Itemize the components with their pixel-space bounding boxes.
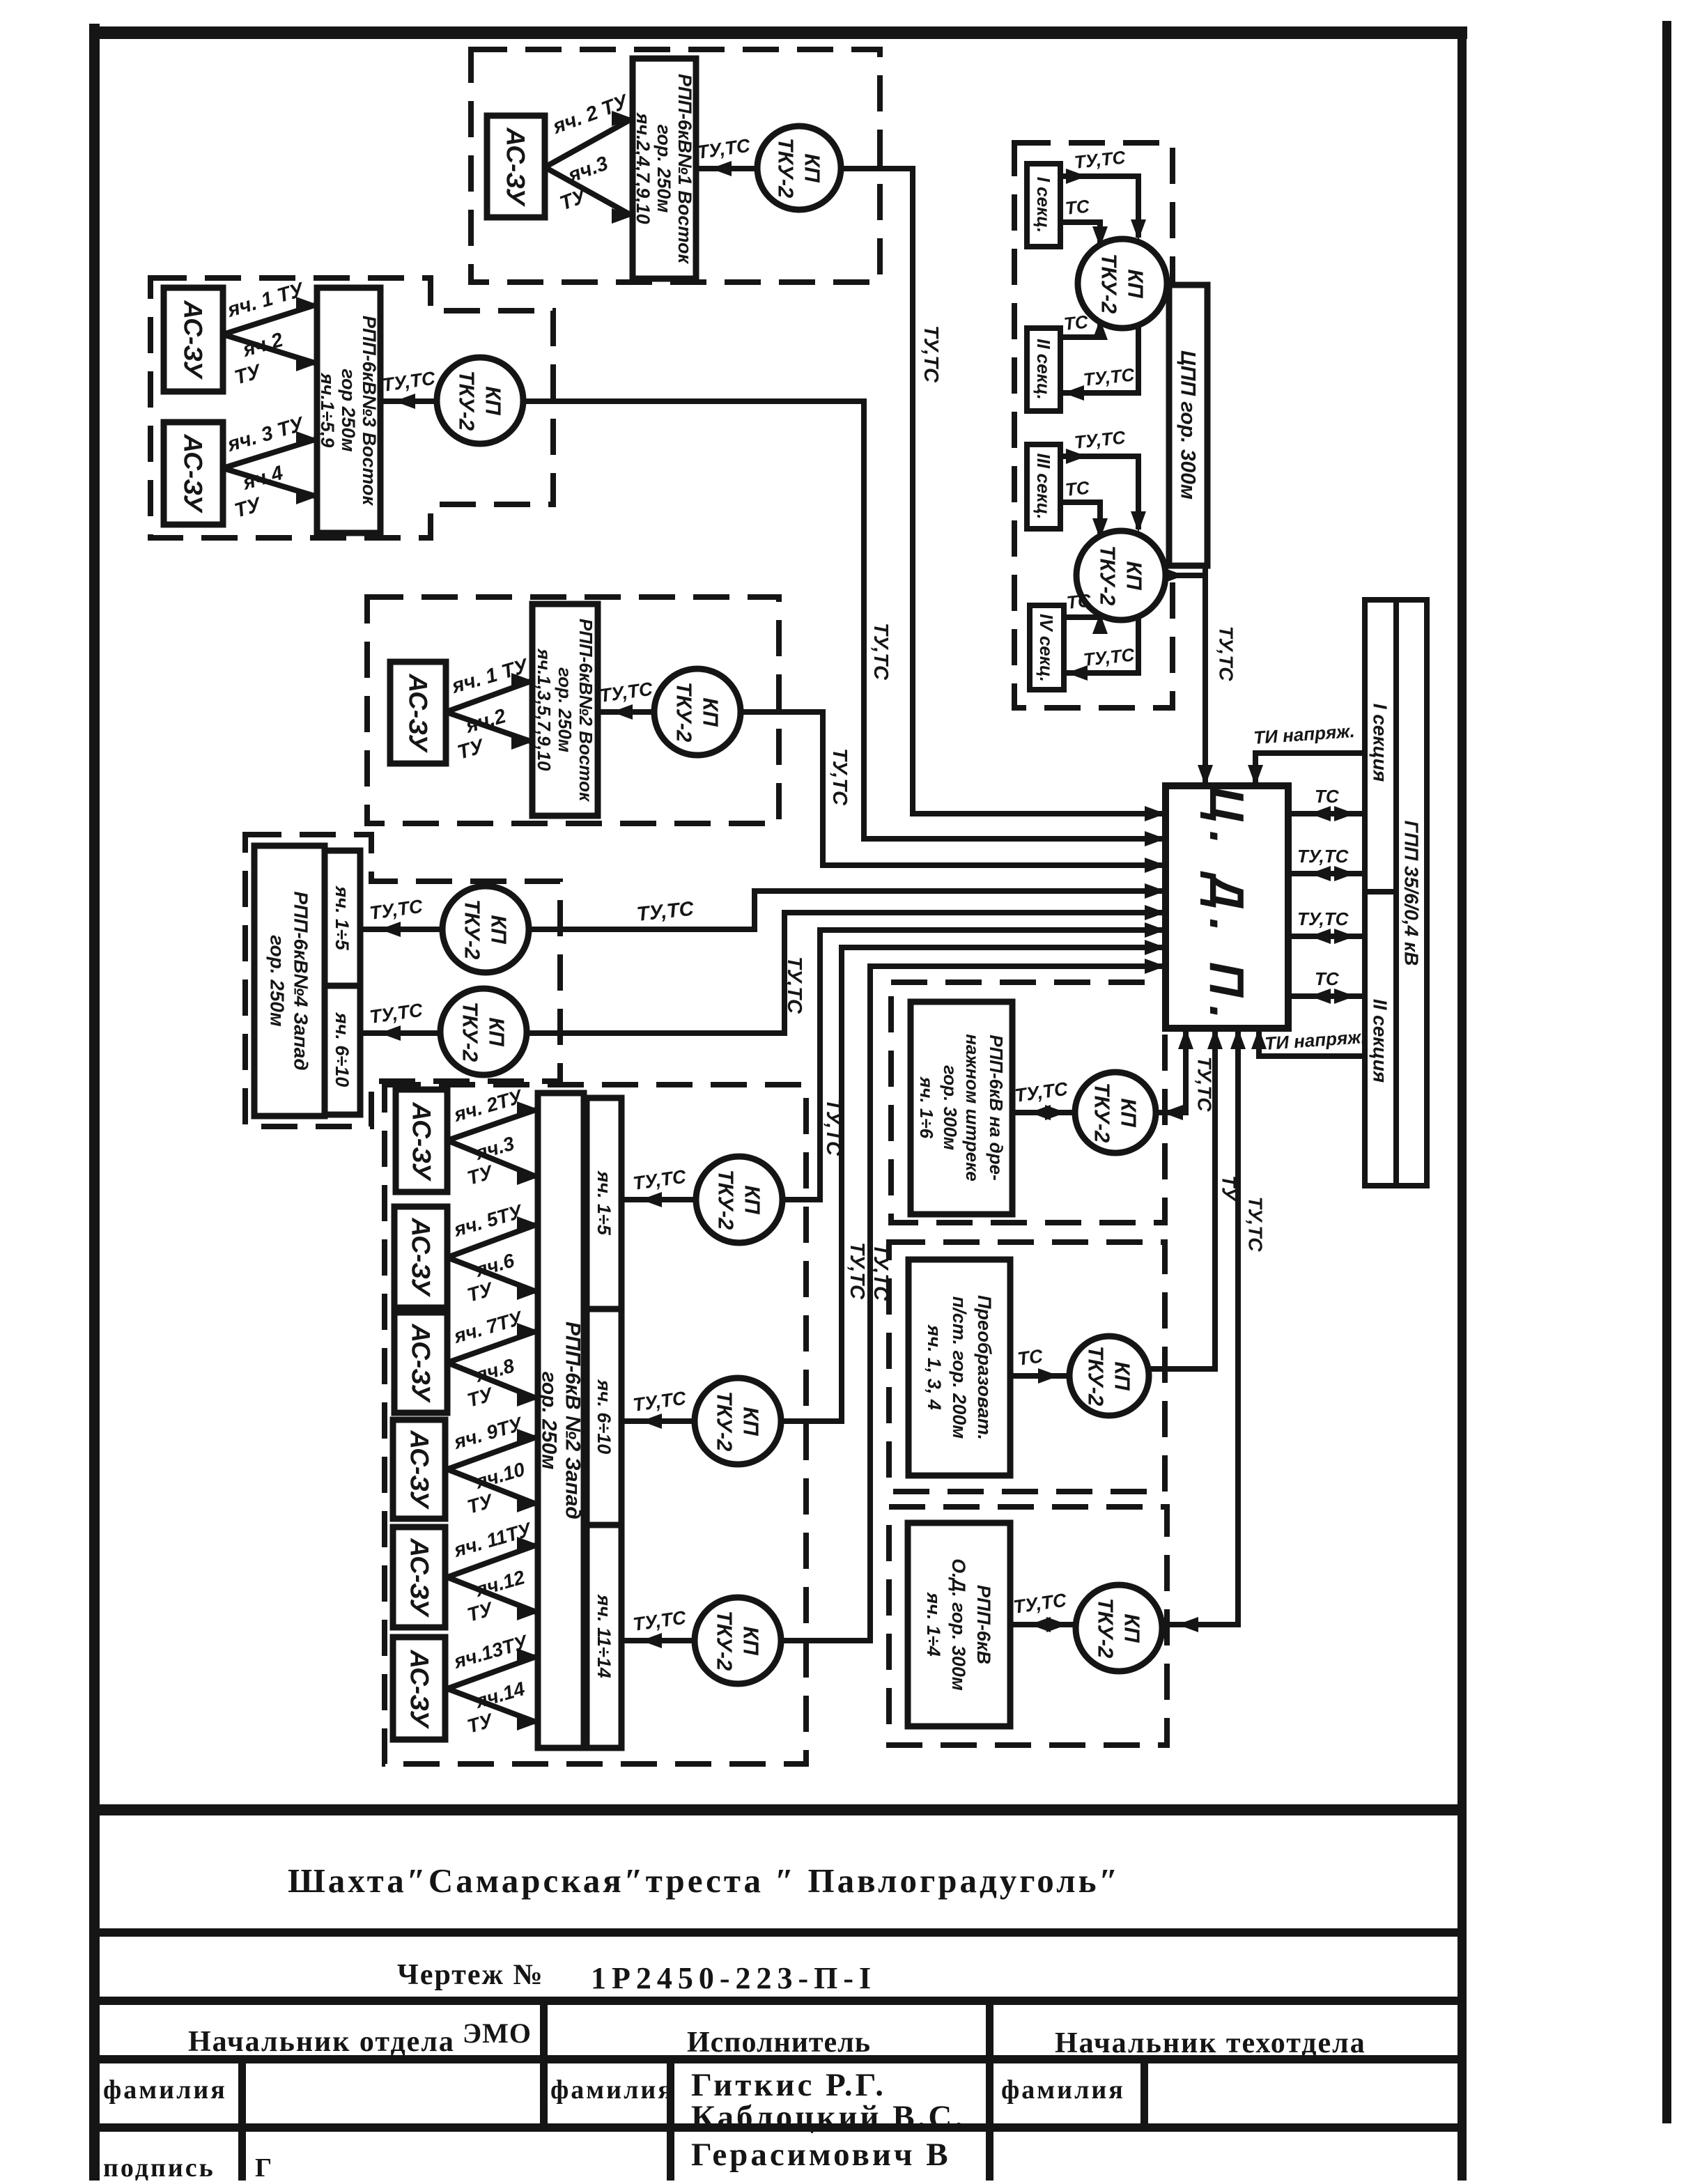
svg-text:АС-ЗУ: АС-ЗУ (405, 1538, 434, 1618)
svg-text:Исполнитель: Исполнитель (687, 2027, 871, 2059)
controller КП ТКУ-2 (ЦПП lower) (1076, 531, 1166, 620)
wire ТУ,ТС stub 2 (1288, 871, 1365, 876)
svg-text:АС-ЗУ: АС-ЗУ (408, 1101, 436, 1182)
wire ТИ напряж. lower (1259, 1028, 1365, 1056)
box Преобразоват. п/ст. (908, 1260, 1010, 1476)
cell яч.11÷14 (G5) (587, 1525, 621, 1748)
divider фамилия 2 (667, 2059, 674, 2181)
cell яч.6÷10 (G5) (587, 1309, 621, 1525)
sheet edge line right (1662, 21, 1671, 2123)
svg-text:Каблоцкий В.С.: Каблоцкий В.С. (691, 2099, 966, 2135)
wire ТУ,ТС I секц to КП upper (1060, 176, 1138, 238)
dashed group boundary Преобразоват. п/ст. (889, 1242, 1165, 1492)
svg-text:Герасимович В: Герасимович В (691, 2137, 951, 2173)
svg-text:Ц. Д. П.: Ц. Д. П. (1200, 787, 1254, 1027)
controller КП ТКУ-2 (G4 upper) (442, 886, 529, 973)
wire КП G7 to ЦДП bottom (1149, 1028, 1215, 1369)
title block rule 4 (100, 2055, 1457, 2063)
controller КП ТКУ-2 (G4 lower) (440, 989, 527, 1075)
svg-text:фамилия: фамилия (103, 2075, 227, 2105)
controller КП ТКУ-2 (G6) (1075, 1072, 1156, 1153)
svg-text:ТС: ТС (1315, 786, 1340, 807)
box АС-ЗУ (G5 #3) (394, 1312, 447, 1413)
svg-text:АС-ЗУ: АС-ЗУ (502, 127, 530, 207)
dashed group boundary РПП-6кВ №4 Запад (245, 835, 560, 1126)
wire ЦПП bus to ЦДП (1202, 566, 1208, 786)
bus РПП-6кВ №2 Запад (538, 1093, 584, 1748)
wire КП G4 lower to ЦДП line 5 (527, 913, 1166, 1033)
wire ТС IV секц to КП lower (1064, 616, 1100, 617)
wire ТИ напряж. upper (1255, 753, 1365, 786)
bus ГПП II секция (1365, 892, 1396, 1186)
cell яч.1÷5 (G4) (325, 851, 360, 986)
wire яч.1 ТУ (G3) (446, 681, 532, 712)
svg-text:фамилия: фамилия (1001, 2075, 1125, 2105)
wire ТУ,ТС III секц to КП lower (1060, 456, 1138, 529)
svg-text:ТУ,ТС: ТУ,ТС (869, 623, 892, 681)
svg-text:ТУ,ТС: ТУ,ТС (828, 748, 851, 806)
wire КП G8 to ЦДП bottom (1162, 1028, 1238, 1625)
svg-text:ТС: ТС (1065, 589, 1092, 613)
svg-text:ТС: ТС (1016, 1345, 1044, 1370)
controller КП ТКУ-2 (G8) (1076, 1585, 1162, 1671)
svg-text:IV секц.: IV секц. (1036, 614, 1057, 682)
wire КП G4 upper to ЦДП line 4 (529, 891, 1166, 929)
controller КП ТКУ-2 (ЦПП upper) (1078, 239, 1167, 328)
wire яч.10 ТУ (G5 #4) (447, 1469, 538, 1505)
wire ТУ,ТС cell2 to КП (G4) (360, 1030, 440, 1036)
svg-text:подпись: подпись (103, 2153, 215, 2181)
svg-text:яч. 1÷5: яч. 1÷5 (332, 885, 353, 950)
wire ТУ,ТС КП lower to IV секц (1064, 616, 1138, 673)
svg-text:яч. 1÷5: яч. 1÷5 (594, 1170, 614, 1235)
controller КП ТКУ-2 (G2) (437, 357, 523, 444)
wire ТУ,ТС cell to КП (G5 #1) (621, 1197, 696, 1202)
svg-text:яч. 6÷10: яч. 6÷10 (332, 1012, 353, 1087)
wire КП G5 #1 to ЦДП line 6 (782, 930, 1166, 1200)
box АС-ЗУ (G3) (390, 662, 446, 764)
svg-text:ТС: ТС (1064, 477, 1091, 500)
cell яч.1÷5 (G5) (587, 1098, 621, 1309)
wire ТУ,ТС cell1 to КП (G4) (360, 927, 442, 932)
svg-text:Начальник техотдела: Начальник техотдела (1055, 2027, 1366, 2059)
controller КП ТКУ-2 (G1) (757, 126, 841, 210)
svg-text:1Р2450-223-П-I: 1Р2450-223-П-I (591, 1961, 876, 1995)
wire КП upper to ЦПП bus (1167, 281, 1170, 286)
sheet frame right border (1457, 31, 1467, 2181)
sheet frame top border (89, 26, 1467, 39)
bus РПП-6кВ №3 Восток (317, 288, 380, 533)
dashed group boundary ЦПП (1014, 143, 1173, 708)
wire яч. 11ТУ (G5 #5) (447, 1544, 538, 1577)
dashed group boundary РПП-6кВ на дренажном штреке (891, 982, 1165, 1223)
title block rule 2 (100, 1928, 1457, 1937)
wire яч.14 ТУ (G5 #6) (447, 1689, 538, 1723)
wire яч.6 ТУ (G5 #2) (447, 1257, 538, 1292)
dashed group boundary РПП-6кВ №1 Восток (471, 49, 880, 282)
dashed group boundary РПП-6кВ №3 Восток (150, 278, 553, 538)
wire КП G2 to ЦДП line 2 (523, 401, 1166, 839)
svg-text:АС-ЗУ: АС-ЗУ (405, 1430, 434, 1510)
divider фамилия 3 (1140, 2059, 1148, 2132)
wire КП G3 to ЦДП line 3 (741, 712, 1166, 865)
svg-text:Чертеж №: Чертеж № (397, 1959, 544, 1991)
title block top rule (100, 1804, 1457, 1815)
wire ТС stub 1 (1288, 811, 1365, 816)
svg-text:ТУ,ТС: ТУ,ТС (783, 957, 805, 1014)
wire ТУ,ТС cell to КП (G5 #3) (621, 1638, 695, 1643)
bus ГПП 35/6/0,4 кВ (1396, 600, 1427, 1186)
divider column 2 (986, 2001, 993, 2181)
svg-text:III секц.: III секц. (1033, 453, 1054, 519)
svg-text:II секц.: II секц. (1033, 339, 1054, 400)
box АС-ЗУ (G5 #5) (393, 1527, 445, 1627)
box АС-ЗУ (G5 #4) (393, 1420, 445, 1519)
svg-text:ТУ,ТС: ТУ,ТС (920, 325, 942, 383)
svg-text:яч. 11÷14: яч. 11÷14 (594, 1593, 614, 1678)
svg-text:ТС: ТС (1315, 968, 1340, 989)
bus ЦПП гор.300м (1169, 285, 1207, 566)
svg-text:II секция: II секция (1370, 999, 1391, 1083)
controller КП ТКУ-2 (G3) (654, 669, 741, 755)
wire яч.8 ТУ (G5 #3) (447, 1363, 538, 1399)
svg-text:ЦПП гор. 300м: ЦПП гор. 300м (1177, 350, 1200, 499)
title block rule 3 (100, 1997, 1457, 2005)
svg-text:яч. 6÷10: яч. 6÷10 (594, 1379, 614, 1455)
svg-text:ТУ,ТС: ТУ,ТС (1297, 908, 1349, 929)
svg-text:ТС: ТС (1064, 195, 1091, 219)
svg-text:ТУ,ТС: ТУ,ТС (1297, 846, 1349, 867)
svg-text:АС-ЗУ: АС-ЗУ (404, 673, 433, 753)
wire яч.3 ТУ (G2) (223, 439, 317, 468)
controller КП ТКУ-2 (G7) (1069, 1336, 1149, 1416)
svg-text:Шахта″Самарская″треста ″ Павло: Шахта″Самарская″треста ″ Павлоградуголь″ (288, 1861, 1121, 1900)
block Ц.Д.П. (1166, 786, 1288, 1028)
wire ТС stub 4 (1288, 993, 1365, 999)
svg-text:АС-ЗУ: АС-ЗУ (179, 433, 208, 513)
svg-text:Начальник отдела: Начальник отдела (188, 2026, 455, 2058)
svg-text:ТУ,ТС: ТУ,ТС (1194, 1056, 1216, 1112)
wire КП G1 to ЦДП line 1 (841, 169, 1166, 814)
controller КП ТКУ-2 (G5 #1) (696, 1156, 782, 1243)
wire КП G6 to ЦДП bottom (1156, 1028, 1186, 1113)
box АС-ЗУ (G2 upper) (164, 288, 223, 392)
wire яч.1 ТУ (G2) (223, 304, 317, 334)
wire яч. 7ТУ (G5 #3) (447, 1331, 538, 1363)
svg-text:I секц.: I секц. (1033, 177, 1054, 233)
dashed group boundary РПП-6кВ №2 Восток (367, 597, 779, 823)
wire ТС II секц to КП upper (1060, 322, 1100, 337)
box АС-ЗУ (G2 lower) (164, 422, 223, 525)
svg-text:Гиткис Р.Г.: Гиткис Р.Г. (691, 2067, 886, 2103)
cell II секц. (ЦПП) (1027, 328, 1060, 411)
wire КП lower to ЦПП riser (1166, 573, 1205, 578)
box АС-ЗУ (G5 #6) (393, 1637, 445, 1740)
wire яч.12 ТУ (G5 #5) (447, 1577, 538, 1613)
bus РПП-6кВ №1 Восток (633, 59, 696, 279)
wire ТС III секц to КП lower (1060, 502, 1100, 537)
wire ТУ,ТС bus to КП (G2) (380, 398, 437, 404)
wire ТС I секц to КП upper (1060, 222, 1100, 245)
title block rule 5 (100, 2123, 1457, 2132)
svg-text:фамилия: фамилия (550, 2075, 674, 2105)
wire яч.2 ТУ (G2) (223, 334, 317, 364)
box АС-ЗУ (G5 #1) (396, 1090, 447, 1192)
wire яч.2 ТУ (G3) (446, 712, 532, 742)
svg-text:АС-ЗУ: АС-ЗУ (407, 1323, 435, 1403)
wire ТУ,ТС box to КП (G8) (1010, 1622, 1076, 1627)
cell III секц. (ЦПП) (1027, 444, 1060, 529)
svg-text:ЭМО: ЭМО (463, 2018, 532, 2049)
wire ТУ,ТС bus to КП (G1) (696, 166, 757, 171)
box РПП-6кВ О.Д. (908, 1523, 1010, 1726)
bus ГПП I секция (1365, 600, 1396, 892)
wire ТУ,ТС box to КП (G6) (1012, 1110, 1075, 1115)
svg-text:ТУ,ТС: ТУ,ТС (822, 1099, 844, 1156)
wire ТУ,ТС stub 3 (1288, 934, 1365, 939)
cell I секц. (ЦПП) (1027, 164, 1060, 247)
controller КП ТКУ-2 (G5 #2) (695, 1378, 781, 1464)
svg-text:АС-ЗУ: АС-ЗУ (407, 1217, 435, 1297)
box АС-ЗУ (G5 #2) (394, 1207, 447, 1308)
cell яч.6÷10 (G4) (325, 986, 360, 1115)
bus РПП-6кВ №2 Восток (532, 604, 598, 816)
divider фамилия 1 (238, 2059, 246, 2181)
wire ТУ,ТС cell to КП (G5 #2) (621, 1418, 695, 1424)
wire яч. 2ТУ (G5 #1) (447, 1109, 538, 1140)
wire ТУ,ТС bus to КП (G3) (598, 709, 654, 715)
cell IV секц. (ЦПП) (1030, 605, 1064, 690)
svg-text:ГПП 35/6/0,4 кВ: ГПП 35/6/0,4 кВ (1401, 821, 1423, 966)
dashed group boundary РПП-6кВ О.Д. (889, 1507, 1167, 1745)
wire яч.3 ТУ (G5 #1) (447, 1140, 538, 1177)
wire КП G5 #3 to ЦДП line 8 (781, 966, 1166, 1641)
svg-text:ТС: ТС (1062, 311, 1090, 334)
wire КП G5 #2 to ЦДП line 7 (781, 947, 1166, 1421)
divider column 1 (540, 2001, 548, 2132)
controller КП ТКУ-2 (G5 #3) (695, 1597, 781, 1684)
svg-text:ТУ,ТС: ТУ,ТС (1245, 1196, 1267, 1252)
wire ТУ,ТС КП upper to II секц (1060, 325, 1138, 393)
svg-text:АС-ЗУ: АС-ЗУ (179, 300, 208, 380)
wire яч. 9ТУ (G5 #4) (447, 1436, 538, 1469)
wire яч.2 ТУ (G1) (545, 118, 633, 167)
dashed group boundary РПП-6кВ №2 Запад (385, 1085, 806, 1764)
wire яч.13ТУ (G5 #6) (447, 1656, 538, 1689)
wire ТС box to КП (G7) (1010, 1373, 1069, 1379)
svg-text:АС-ЗУ: АС-ЗУ (405, 1649, 434, 1729)
box АС-ЗУ (G1) (487, 116, 545, 217)
svg-text:I секция: I секция (1370, 704, 1391, 782)
bus РПП-6кВ №4 Запад (254, 846, 325, 1116)
wire яч. 5ТУ (G5 #2) (447, 1224, 538, 1257)
wire яч.3 ТУ (G1) (545, 167, 633, 216)
wire яч.4 ТУ (G2) (223, 468, 317, 497)
box РПП-6кВ на дренажном штреке (911, 1002, 1012, 1214)
svg-text:Г: Г (255, 2153, 272, 2181)
sheet frame left border (89, 24, 100, 2181)
svg-text:ТУ,ТС: ТУ,ТС (1216, 626, 1237, 681)
svg-text:ТУ,ТС: ТУ,ТС (846, 1242, 868, 1300)
